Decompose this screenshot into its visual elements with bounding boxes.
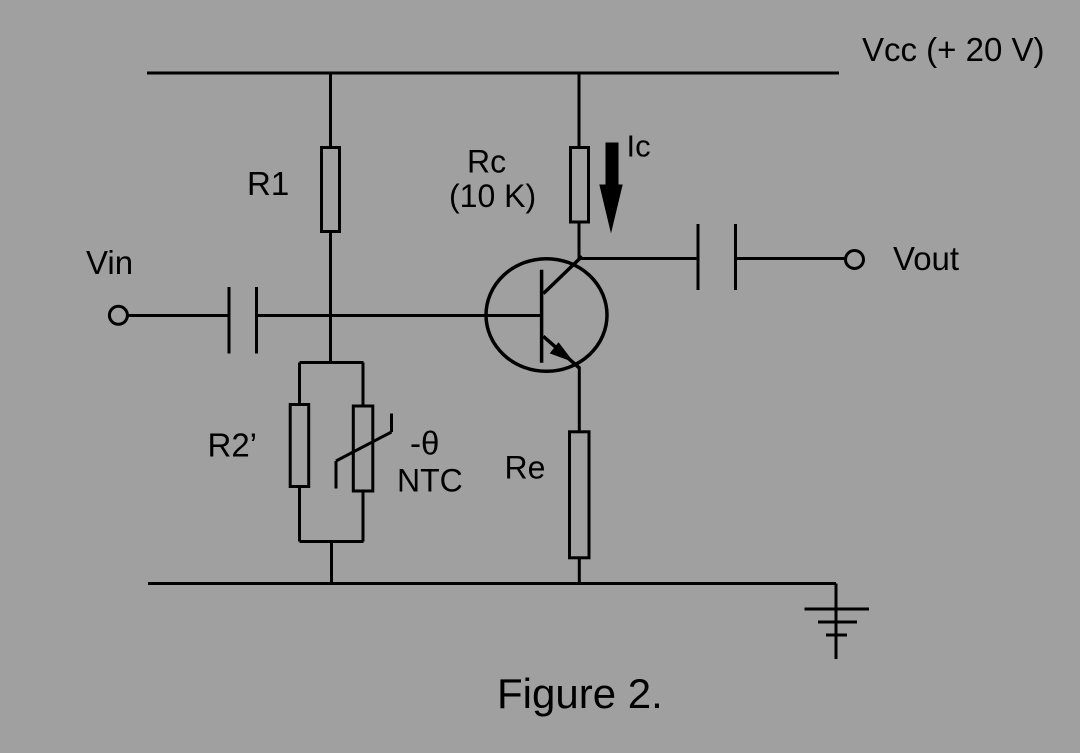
svg-text:-θ: -θ [410,425,439,462]
ground symbol [805,584,870,660]
capacitor C1 (input coupling) [229,287,257,354]
resistor R1 [322,148,340,232]
svg-text:R2’: R2’ [208,427,258,464]
wire: bottom bar to ground rail [330,542,333,584]
wire: Vcc top rail [147,72,839,75]
capacitor C2 (output coupling) [698,224,736,290]
wire: top bar to NTC [362,363,365,407]
svg-text:Vcc (+ 20 V): Vcc (+ 20 V) [862,31,1044,68]
wire: R2' to bottom bar [298,487,301,542]
svg-text:Figure 2.: Figure 2. [497,670,663,717]
wire: divider bottom bar [300,540,364,543]
svg-text:Re: Re [505,450,546,486]
wire: emitter to Re top [578,367,581,433]
svg-text:NTC: NTC [397,463,463,499]
wire: NTC to bottom bar [362,491,365,542]
thermistor NTC [336,406,392,491]
wire: top bar to R2' [298,363,301,405]
wire: C2 to Vout terminal [736,257,846,260]
svg-text:Vout: Vout [893,240,959,277]
svg-text:R1: R1 [247,165,289,202]
terminal Vin [109,306,127,324]
wire: C1 to transistor base (through base node) [257,314,542,317]
wire: collector node to C2 [579,257,698,260]
resistor R2' [290,405,309,487]
wire: Rc bottom to collector node [578,222,581,259]
svg-text:Vin: Vin [86,244,133,281]
wire: Re bottom to ground rail [578,558,581,584]
svg-text:(10 K): (10 K) [449,178,536,214]
wire: Vin terminal to C1 [128,314,230,317]
wire: Vcc rail to R1 top [329,73,332,148]
wire: Vcc rail to Rc top [578,73,581,148]
svg-text:Rc: Rc [467,144,506,180]
wire: divider top bar [300,361,364,364]
transistor Q1 [486,256,607,371]
resistor Rc [571,148,589,223]
resistor Re [570,432,590,558]
wire: R1 bottom through base node down to divider top [329,232,332,363]
svg-text:Ic: Ic [627,129,651,164]
wire: ground bottom rail [148,582,836,585]
terminal Vout [846,251,864,269]
current arrow Ic [599,143,622,234]
